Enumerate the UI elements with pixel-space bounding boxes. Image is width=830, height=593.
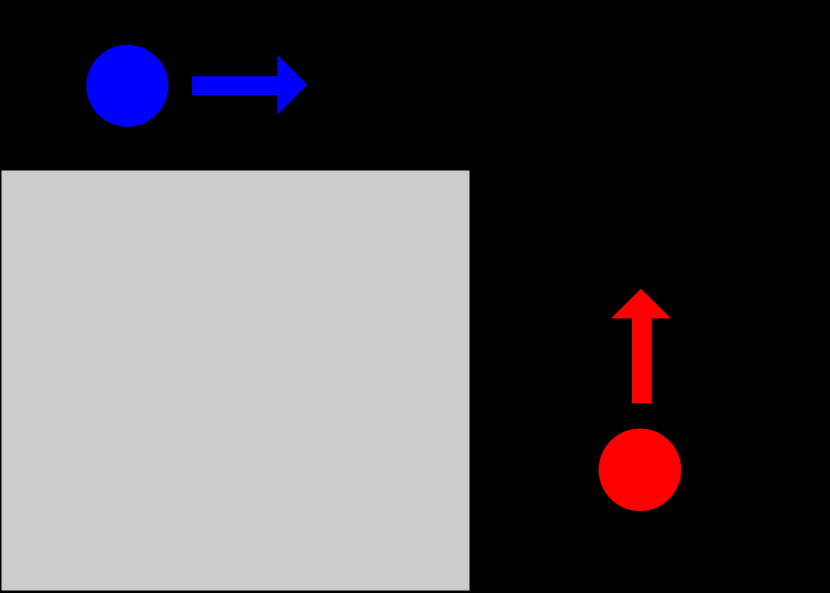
red velocity arrow (upward) bbox=[611, 289, 671, 404]
blue velocity arrow (rightward) bbox=[192, 55, 308, 115]
blue ball bbox=[86, 45, 168, 127]
gray block bbox=[2, 171, 470, 591]
red ball bbox=[599, 429, 682, 512]
